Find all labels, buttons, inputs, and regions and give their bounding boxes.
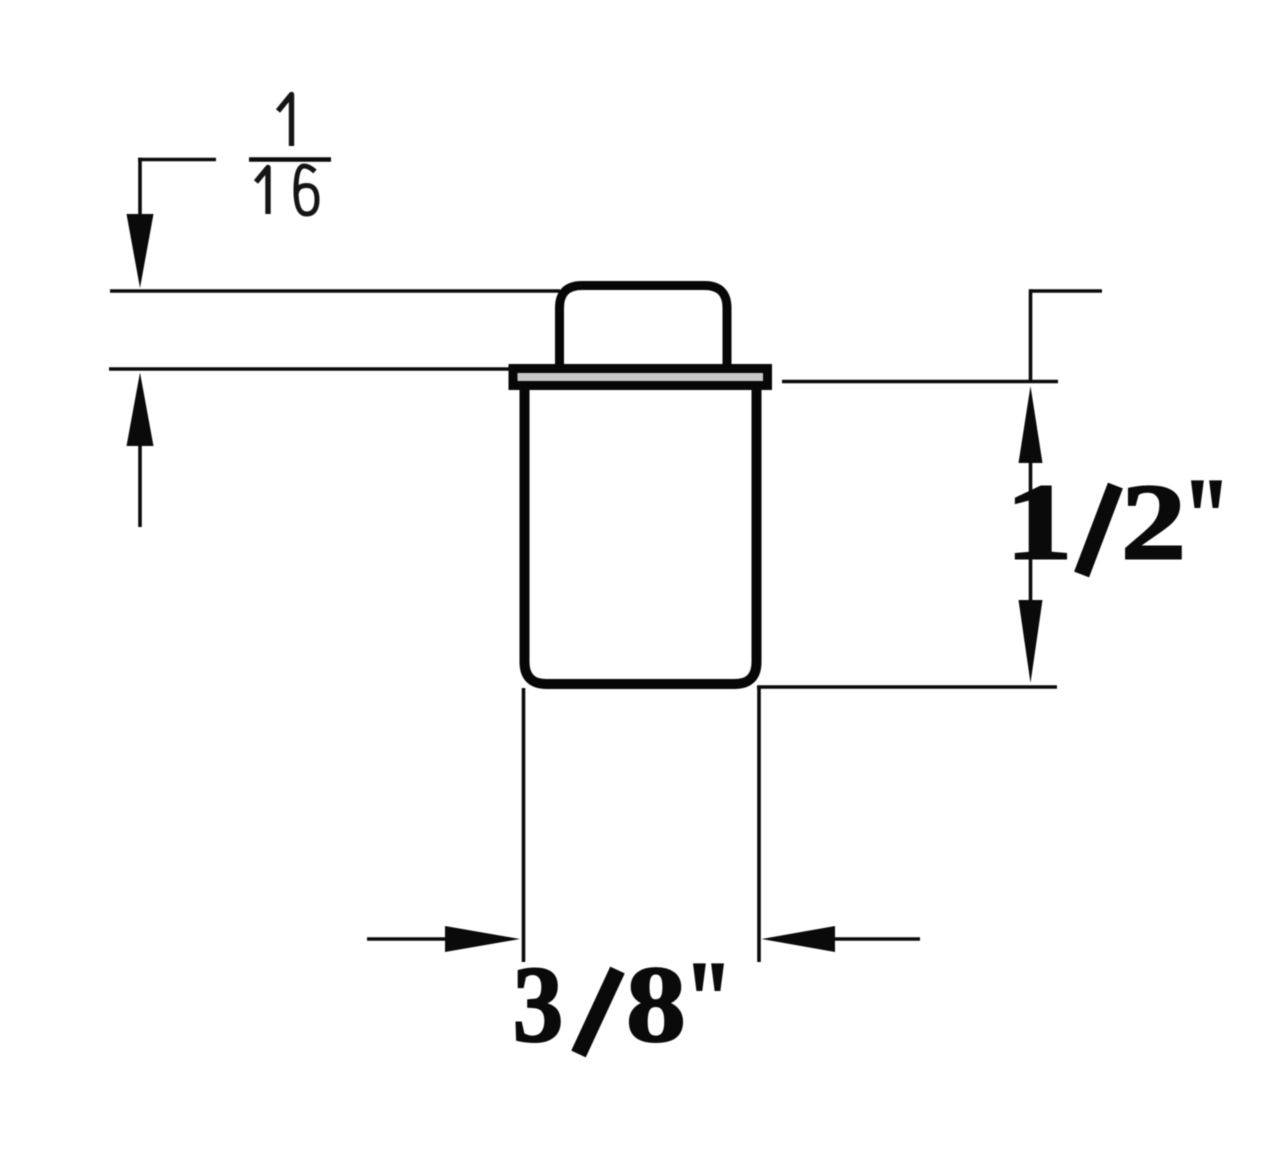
svg-text:3: 3: [513, 944, 564, 1065]
svg-text:2: 2: [1121, 463, 1186, 583]
svg-text:": ": [684, 940, 732, 1060]
svg-text:": ": [1182, 457, 1230, 577]
svg-text:1: 1: [1005, 462, 1073, 583]
svg-text:8: 8: [626, 944, 686, 1065]
